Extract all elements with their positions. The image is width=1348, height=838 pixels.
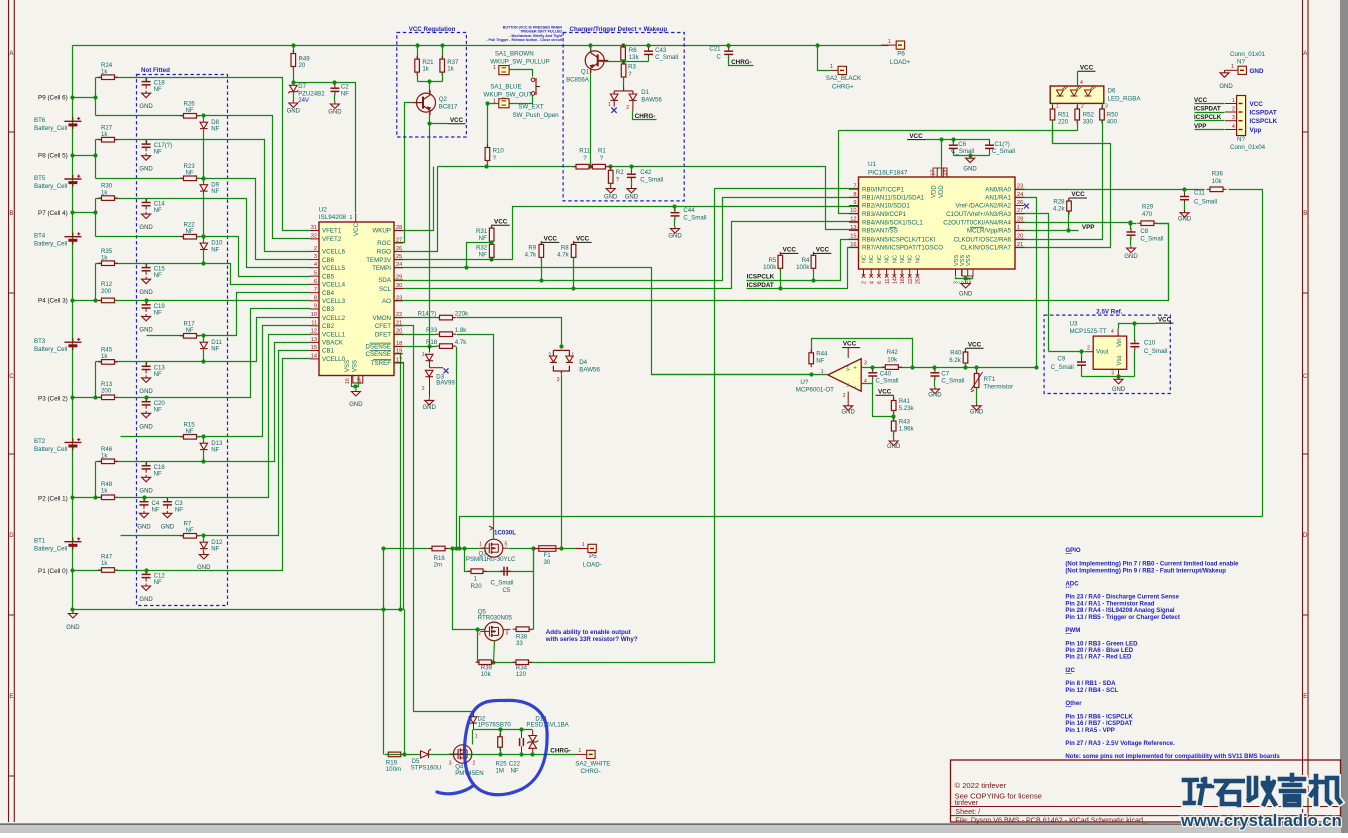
svg-text:19: 19 [396, 348, 402, 354]
svg-text:21: 21 [1017, 242, 1023, 248]
resistor R42 10k [882, 365, 902, 370]
wire cell bundle [147, 300, 311, 302]
svg-text:GND: GND [963, 167, 977, 173]
svg-text:VSS: VSS [954, 255, 960, 266]
wire riser R24 [95, 78, 97, 116]
capacitor C4 NF [144, 498, 146, 502]
pin 30 SCL [394, 288, 403, 290]
svg-text:1: 1 [1231, 64, 1234, 70]
ground U3 [1114, 377, 1123, 384]
svg-text:5: 5 [314, 271, 317, 277]
svg-text:VCC: VCC [1080, 64, 1094, 71]
wire cell bundle [147, 309, 311, 398]
svg-text:30: 30 [544, 559, 551, 566]
wire cell bundle [147, 264, 311, 285]
svg-text:15: 15 [850, 234, 856, 240]
svg-text:VCC: VCC [968, 341, 982, 348]
pin 20 CLKOUT/OSC2/RA6 [1015, 238, 1025, 240]
svg-text:NF: NF [154, 406, 162, 413]
svg-text:GND: GND [423, 405, 437, 411]
svg-text:10k: 10k [481, 671, 492, 678]
resistor R28 4.2k [1068, 199, 1070, 201]
svg-text:GND: GND [668, 234, 682, 240]
svg-text:CHRG-: CHRG- [581, 768, 601, 775]
pin 2 VCELL6 [310, 250, 319, 252]
resistor R5 100k [780, 254, 782, 256]
thermistor RT1 [976, 368, 978, 373]
svg-text:GND: GND [139, 597, 153, 603]
svg-text:Battery_Cell: Battery_Cell [34, 446, 67, 453]
svg-text:VDD: VDD [932, 185, 938, 198]
svg-text:NC: NC [900, 255, 906, 263]
svg-text:R43: R43 [899, 419, 911, 426]
svg-text:- Pull Trigger - Release butto: - Pull Trigger - Release button - Close … [486, 38, 562, 42]
svg-text:17: 17 [396, 358, 402, 364]
resistor R23 NF [96, 178, 184, 180]
svg-text:NF: NF [154, 207, 162, 214]
svg-text:26: 26 [396, 246, 402, 252]
svg-text:R10: R10 [493, 148, 505, 155]
zener D7 PZU24B2 [293, 83, 295, 85]
pin 6 VCELL4 [310, 283, 319, 285]
svg-text:R3: R3 [628, 64, 636, 71]
resistor R47 1k [73, 570, 102, 572]
svg-text:10k: 10k [887, 357, 898, 364]
resistor R33 1.8k [436, 332, 456, 337]
svg-text:NF: NF [479, 251, 487, 258]
pin 16 RB7/AN6/ICSPDAT/T1OSCO [849, 246, 859, 248]
pin 18 DSENSE [394, 345, 403, 347]
svg-text:Q2: Q2 [439, 96, 448, 103]
svg-text:3: 3 [1111, 371, 1114, 377]
wire Q5 gate riser from power row [453, 549, 485, 630]
svg-text:GND: GND [625, 194, 639, 200]
wire load minus branch riser [460, 517, 1263, 549]
svg-text:1: 1 [578, 748, 581, 754]
wire pin24 AN1 thermistor riser [1015, 198, 1037, 368]
svg-text:Thermistor: Thermistor [984, 383, 1014, 390]
pin 31 VFET1 [310, 230, 319, 232]
svg-text:LOAD+: LOAD+ [890, 59, 911, 66]
svg-text:C9: C9 [1057, 356, 1065, 363]
ground C42 [627, 186, 636, 193]
svg-text:GND: GND [1178, 216, 1192, 222]
resistor R43 1.96k [893, 417, 895, 421]
svg-text:GND: GND [139, 424, 153, 430]
svg-text:Vout: Vout [1096, 349, 1109, 356]
svg-text:Pin 12 / RB4 - SCL: Pin 12 / RB4 - SCL [1065, 687, 1118, 694]
junction dots main [70, 95, 74, 99]
svg-text:C_Small: C_Small [941, 378, 964, 385]
svg-text:R44: R44 [816, 351, 828, 358]
svg-text:NF: NF [154, 86, 162, 93]
svg-text:1k: 1k [101, 68, 108, 75]
pin 1 MCLR/Vpp/RA5 [1015, 229, 1025, 231]
svg-text:CHRG-: CHRG- [635, 113, 656, 120]
svg-text:RB2/AN10/SDO1: RB2/AN10/SDO1 [862, 203, 910, 210]
svg-text:1PS76SB70: 1PS76SB70 [478, 721, 512, 728]
ground C2 [330, 102, 339, 109]
ground C6 C1 [966, 156, 975, 163]
svg-text:File: Dyson V6 BMS - PCB 61462: File: Dyson V6 BMS - PCB 61462 - KiCad S… [955, 815, 1148, 824]
svg-text:VDD: VDD [939, 185, 945, 198]
svg-text:100k: 100k [763, 264, 777, 271]
svg-text:VCELL1: VCELL1 [322, 331, 346, 338]
power VCC D6 [1078, 70, 1096, 72]
svg-text:1: 1 [1056, 104, 1059, 110]
svg-text:R36: R36 [1212, 171, 1224, 178]
svg-text:CHRG-: CHRG- [550, 748, 571, 755]
wire pin1 VPP row [1015, 230, 1079, 232]
pins NC bottom of U1 [863, 269, 865, 276]
svg-text:NF: NF [154, 272, 162, 279]
svg-text:C: C [1303, 374, 1308, 380]
wire cell bundle [204, 237, 311, 277]
svg-text:GND: GND [66, 625, 80, 631]
svg-text:Conn_01x01: Conn_01x01 [1230, 51, 1266, 58]
svg-text:PSMN1R0-30YLC: PSMN1R0-30YLC [466, 556, 516, 563]
svg-text:4.7k: 4.7k [557, 251, 569, 258]
svg-text:RB6/AN5/ICSPCLK/T1CKI: RB6/AN5/ICSPCLK/T1CKI [862, 236, 936, 243]
svg-text:1k: 1k [101, 453, 108, 460]
svg-text:120: 120 [516, 671, 527, 678]
svg-text:BC817: BC817 [439, 104, 458, 111]
svg-text:---: --- [1065, 704, 1071, 711]
wire Q2 emitter to VCC [429, 113, 431, 124]
svg-text:15: 15 [311, 345, 317, 351]
pins VSS EP bottom of U1 [955, 269, 957, 276]
svg-text:?: ? [616, 177, 620, 184]
wire SA1_BROWN to switch [510, 70, 533, 77]
diode D10 NF [203, 237, 205, 243]
svg-text:GND: GND [842, 410, 856, 416]
pin 8 RB1/AN11/SDI1/SDA1 [849, 196, 859, 198]
svg-text:GND: GND [161, 524, 175, 530]
power VCC R5 [780, 252, 798, 254]
svg-text:EP: EP [357, 377, 363, 384]
pin 14 VCELL0 [310, 358, 319, 360]
wire Q5 drain to R38 [504, 629, 511, 631]
svg-text:NF: NF [211, 246, 219, 253]
svg-text:10: 10 [311, 312, 317, 318]
svg-text:1k: 1k [101, 353, 108, 360]
svg-text:4: 4 [1232, 124, 1235, 130]
resistor R21 1k [417, 46, 419, 59]
wire enable row R39 R34 [478, 662, 715, 664]
wire TEMPI to op-amp out [395, 268, 828, 375]
capacitor C20 NF [146, 398, 148, 402]
svg-text:Battery_Cell: Battery_Cell [34, 241, 67, 248]
pin 9 CB3 [310, 308, 319, 310]
wire pin23 AN0 row to R36 [1015, 189, 1205, 191]
svg-text:R29: R29 [1142, 204, 1154, 211]
dashed box Charger/Trigger Detect + Wakeup [563, 33, 684, 201]
resistor R44 NF [809, 349, 814, 367]
svg-text:1k: 1k [447, 66, 454, 73]
svg-text:C44: C44 [683, 207, 695, 214]
wire D4 to Q3 drain row [561, 375, 563, 549]
note GPIO pin assignment list [1065, 547, 1280, 760]
wire VCC net Q2 emitter down to R18 [429, 124, 431, 347]
svg-text:3: 3 [864, 361, 867, 367]
svg-text:200: 200 [101, 388, 112, 395]
svg-text:C_Small: C_Small [640, 176, 663, 183]
battery BT6 [64, 117, 81, 129]
svg-text:V-: V- [846, 382, 851, 387]
svg-text:28: 28 [1017, 217, 1023, 223]
resistor R25 1M [500, 730, 502, 737]
sheet frame left [8, 0, 10, 822]
svg-text:2: 2 [862, 281, 868, 284]
svg-text:WKUP_SW_PULLUP: WKUP_SW_PULLUP [490, 59, 550, 66]
svg-text:2m: 2m [434, 562, 442, 569]
svg-text:Battery_Cell: Battery_Cell [34, 125, 67, 132]
svg-text:VCC: VCC [783, 247, 797, 254]
resistor R46 1k [96, 461, 147, 463]
svg-text:220: 220 [1058, 119, 1069, 126]
wire wakeup row R10-R11-R1 to pin13 [438, 167, 859, 230]
pin 5 CB5 [310, 275, 319, 277]
capacitor C10 C_Small [1130, 340, 1139, 351]
svg-text:1M: 1M [496, 767, 504, 774]
svg-text:P2 (Cell 1): P2 (Cell 1) [38, 496, 68, 503]
svg-text:R20: R20 [471, 583, 483, 590]
wire AO row to pin28 net [395, 224, 1169, 301]
svg-text:Charger/Trigger Detect + Wakeu: Charger/Trigger Detect + Wakeup [570, 26, 668, 33]
svg-text:SA1_BLUE: SA1_BLUE [490, 84, 521, 91]
wire cell bundle [168, 335, 311, 498]
capacitor C13 NF [146, 362, 148, 366]
svg-text:NC: NC [908, 255, 914, 263]
wire TEMP3V to pin9 row [395, 207, 859, 260]
svg-text:VCC: VCC [494, 218, 508, 225]
svg-text:BC856A: BC856A [566, 77, 590, 84]
pin 22 VMON [394, 317, 403, 319]
svg-text:NF: NF [186, 170, 194, 177]
svg-text:U3: U3 [1070, 321, 1078, 328]
svg-text:CB5: CB5 [322, 273, 335, 280]
svg-text:NF: NF [154, 579, 162, 586]
svg-text:R40: R40 [950, 350, 962, 357]
wire R16 to ground rail to R19 [383, 549, 385, 755]
resistor R31 NF [491, 226, 493, 229]
svg-text:C: C [9, 374, 14, 380]
wire op-amp plus input row [862, 367, 1037, 369]
wire Q3 R20 C5 bracket [465, 549, 534, 572]
svg-text:29: 29 [396, 275, 402, 281]
svg-text:DFET: DFET [375, 331, 391, 338]
svg-text:NF: NF [186, 428, 194, 435]
svg-text:VCC: VCC [450, 117, 464, 124]
svg-text:19: 19 [943, 170, 949, 176]
svg-text:GND: GND [139, 290, 153, 296]
svg-text:3: 3 [1232, 115, 1235, 121]
capacitor C2 NF [334, 83, 336, 86]
wire DSENSE row [395, 346, 437, 348]
wire VCC to C6 C1 [942, 140, 990, 143]
svg-text:32: 32 [311, 233, 317, 239]
svg-text:C10: C10 [1144, 340, 1156, 347]
wire Q4 gate rail [474, 729, 533, 731]
svg-text:VCC: VCC [544, 236, 558, 243]
transistor Q1 BC856A [585, 48, 608, 73]
svg-text:VCC: VCC [816, 247, 830, 254]
svg-text:4.2k: 4.2k [1053, 206, 1065, 213]
wire C6 C1 ground tie [954, 155, 990, 157]
wire pin27 vref riser [1015, 214, 1049, 352]
gray area below page [0, 823, 1341, 825]
resistor R45 1k [96, 361, 147, 363]
wire Q5 source down [494, 641, 495, 663]
svg-text:3: 3 [314, 254, 317, 260]
svg-text:2: 2 [843, 393, 846, 399]
wire bottom charge row [385, 754, 576, 756]
svg-text:9: 9 [853, 200, 856, 206]
svg-text:GND: GND [1250, 68, 1264, 75]
svg-text:STPS160U: STPS160U [411, 765, 441, 772]
wire riser R46 [95, 462, 97, 498]
ground RT1 [972, 403, 981, 410]
wire VCC stub at conn [1195, 103, 1225, 105]
svg-text:GND: GND [1112, 387, 1126, 393]
svg-text:200: 200 [101, 288, 112, 295]
wire R38 right [530, 629, 534, 631]
wire cell bundle [147, 343, 311, 462]
svg-text:CB6: CB6 [322, 257, 335, 264]
svg-text:D4: D4 [579, 359, 587, 366]
svg-text:NF: NF [211, 125, 219, 132]
svg-text:1C030L: 1C030L [494, 529, 516, 536]
svg-text:SA2_BLACK: SA2_BLACK [826, 75, 862, 82]
label CHRG- at D1 [633, 111, 657, 120]
ground D3 [425, 398, 434, 405]
svg-text:C_Small: C_Small [1194, 199, 1217, 206]
svg-text:GND: GND [137, 524, 151, 530]
svg-text:1.8k: 1.8k [455, 327, 467, 334]
hand-drawn blue circle around Q4 [437, 700, 547, 794]
connector P5 LOAD- [576, 548, 588, 550]
wire R28 bottom [1068, 212, 1070, 231]
pin 24 AN1/RA1 [1015, 196, 1025, 198]
svg-text:NF: NF [154, 470, 162, 477]
svg-text:NC: NC [885, 255, 891, 263]
wires D6 to resistors [1052, 104, 1054, 109]
svg-text:2: 2 [1087, 346, 1090, 352]
svg-text:GND: GND [349, 402, 363, 408]
svg-text:NF: NF [154, 149, 162, 156]
wire SA1_BLUE down to R10 [488, 104, 499, 148]
svg-text:D7: D7 [298, 83, 306, 90]
switch SW_EXT SW_Push_Open [531, 78, 535, 82]
svg-text:11: 11 [311, 320, 317, 326]
resistor R20 1 [468, 569, 487, 574]
svg-text:13k: 13k [629, 54, 640, 61]
svg-text:C_Small: C_Small [1051, 364, 1074, 371]
power VCC R31 [492, 224, 510, 226]
wire pin21 to R51 [1015, 127, 1111, 248]
svg-text:?: ? [600, 155, 604, 162]
svg-text:12: 12 [850, 217, 856, 223]
wire Q5 gate to R39 [477, 630, 479, 663]
svg-text:4: 4 [864, 379, 867, 385]
wire pin9 C44 branch [674, 207, 676, 211]
wire R51 tail [1052, 127, 1054, 144]
pin 23 AO [394, 300, 403, 302]
svg-text:3: 3 [557, 377, 560, 383]
pin 4 VCELL5 [310, 267, 319, 269]
pin 26 Vref-/DAC/AN2/RA2 [1015, 205, 1025, 207]
svg-text:MCP1525-TT: MCP1525-TT [1070, 328, 1107, 335]
pin 2 ICSPDAT [1195, 112, 1225, 114]
resistor R19 100m [385, 752, 405, 757]
resistor R11 ? [573, 164, 593, 169]
svg-text:RB3/AN9/CCP1: RB3/AN9/CCP1 [862, 211, 907, 218]
dashed box VCC Regulation [397, 33, 467, 138]
wire R18 to Q3 row [456, 347, 458, 549]
svg-text:VSS: VSS [960, 255, 966, 266]
svg-text:VSS: VSS [966, 255, 972, 266]
svg-text:BT6: BT6 [34, 117, 46, 124]
svg-text:1k: 1k [101, 560, 108, 567]
svg-text:C1(?): C1(?) [995, 141, 1010, 148]
svg-text:NF: NF [479, 235, 487, 242]
pin 23 AN0/RA0 [1015, 188, 1025, 190]
capacitor C5 C_Small [500, 567, 511, 576]
svg-text:NF: NF [211, 188, 219, 195]
pin 27 C1OUT/Vref+/AN3/RA3 [1015, 213, 1025, 215]
svg-text:CB2: CB2 [322, 323, 335, 330]
svg-text:VCC: VCC [1071, 191, 1085, 198]
svg-text:RB7/AN6/ICSPDAT/T1OSCO: RB7/AN6/ICSPDAT/T1OSCO [862, 245, 943, 252]
svg-text:16: 16 [850, 242, 856, 248]
ground U1 [961, 281, 970, 288]
svg-text:NF: NF [186, 527, 194, 534]
svg-text:330: 330 [1083, 119, 1094, 126]
ground C44 [671, 226, 680, 233]
svg-text:ICSPDAT: ICSPDAT [1194, 106, 1221, 113]
svg-text:GND: GND [139, 389, 153, 395]
svg-text:---: --- [1065, 631, 1071, 638]
svg-text:RT1: RT1 [984, 376, 996, 383]
svg-text:R42: R42 [887, 349, 899, 356]
svg-text:VSS: VSS [352, 360, 358, 372]
svg-text:NF: NF [175, 506, 183, 513]
svg-text:VCELL4: VCELL4 [322, 282, 346, 289]
pin 20 DFET [394, 333, 403, 335]
svg-text:1: 1 [349, 215, 352, 221]
capacitor C40 C_Small [872, 368, 874, 371]
pin 24 TEMPI [394, 267, 403, 269]
svg-text:C_Small: C_Small [876, 378, 899, 385]
wire Q2 base [405, 103, 413, 104]
svg-text:C_Small: C_Small [655, 54, 678, 61]
capacitor C42 C_Small [631, 167, 633, 172]
power VCC R41 [876, 394, 894, 396]
svg-text:VBACK: VBACK [322, 340, 344, 347]
svg-text:NC: NC [862, 255, 868, 263]
resistor R26 NF [96, 115, 184, 117]
pins 17 19 VDD top of U1 [936, 168, 938, 177]
svg-text:D: D [9, 533, 14, 539]
svg-text:SCL: SCL [379, 286, 392, 293]
pin 3 ICSPCLK [1195, 120, 1225, 122]
connector SA2_BLACK CHRG+ [818, 46, 831, 71]
svg-text:BT3: BT3 [34, 338, 46, 345]
resistor R12 200 [73, 300, 102, 302]
wire cell bundle [204, 293, 311, 336]
svg-text:NF: NF [154, 309, 162, 316]
svg-text:CFET: CFET [375, 323, 391, 330]
